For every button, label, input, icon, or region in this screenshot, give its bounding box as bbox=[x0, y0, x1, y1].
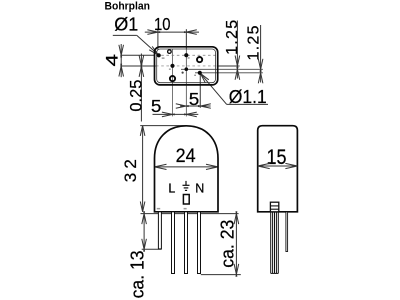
svg-text:L: L bbox=[168, 181, 175, 195]
hole L1 top-left bbox=[157, 53, 161, 57]
boss ring bottom-left bbox=[170, 76, 175, 81]
pin 4 bbox=[198, 212, 201, 274]
svg-text:5: 5 bbox=[189, 89, 200, 109]
dim 32 line bbox=[142, 126, 144, 212]
dim 10 arrow right bbox=[184, 30, 197, 35]
svg-text:Bohrplan: Bohrplan bbox=[105, 1, 151, 13]
svg-text:5: 5 bbox=[151, 96, 162, 116]
side pins bundle bbox=[271, 212, 279, 274]
top view case outline bbox=[155, 47, 218, 85]
ext pins bottom bbox=[201, 274, 241, 276]
dim 5 second line bbox=[180, 105, 211, 107]
dim 15 arrow right bbox=[285, 163, 297, 168]
ext short pin bottom bbox=[142, 248, 162, 250]
dim 4 arrow top bbox=[119, 45, 124, 58]
label O1 underline bbox=[113, 34, 137, 36]
dim 0.25 line bbox=[140, 54, 142, 122]
dim ca13 arrow bottom bbox=[142, 239, 147, 252]
dim 10 ext right / col 186.3 bbox=[185, 29, 187, 48]
svg-text:24: 24 bbox=[176, 145, 196, 167]
dim 5 second arrow left bbox=[176, 104, 189, 109]
dim 0.25 arrow upper bbox=[139, 55, 144, 68]
row line y66 left ext bbox=[120, 65, 156, 67]
dim ca23 arrow bottom bbox=[234, 264, 239, 277]
pin 2 bbox=[172, 212, 175, 274]
svg-text:Ø1.1: Ø1.1 bbox=[229, 87, 267, 107]
dim 10 ext left bbox=[157, 29, 159, 50]
dim 5 first arrow right bbox=[184, 112, 197, 117]
dim 5 second arrow right bbox=[198, 104, 211, 109]
dim 1.25 second arrow lower bbox=[258, 71, 263, 84]
dim 1.25 second line bbox=[260, 25, 262, 83]
ext body bottom bbox=[141, 213, 239, 215]
hole ring small top bbox=[168, 50, 172, 54]
row line y55 left ext bbox=[120, 54, 155, 56]
dim 24 arrow right bbox=[206, 164, 218, 169]
front view body bbox=[155, 126, 219, 212]
svg-text:Ø1: Ø1 bbox=[114, 14, 138, 34]
row y66 centerline bbox=[156, 65, 217, 67]
row y55 centerline bbox=[156, 54, 217, 56]
dim 1.25 first arrow lower bbox=[235, 67, 240, 80]
dim 4 arrow top tail bbox=[120, 44, 122, 55]
side pin tab line 2 bbox=[270, 208, 278, 210]
label O1.1 leader arrowhead bbox=[198, 71, 208, 83]
dim ca23 arrow top bbox=[234, 211, 239, 224]
centerline col 186.35 inside case bbox=[185, 49, 187, 117]
dim 5 first line bbox=[153, 113, 199, 115]
row y73 line bbox=[195, 72, 263, 74]
col 200.25 ext below bbox=[199, 75, 201, 108]
dim 4 arrow bottom bbox=[119, 64, 124, 77]
dim 15 arrow left bbox=[258, 163, 270, 168]
dim 15 line bbox=[258, 165, 298, 167]
label O1 leader bbox=[137, 35, 159, 54]
dim ca13 line bbox=[143, 214, 145, 252]
svg-text:1.25: 1.25 bbox=[245, 25, 262, 60]
dim ca13 arrow top bbox=[142, 211, 147, 224]
svg-text:ca. 23: ca. 23 bbox=[217, 220, 238, 268]
centerline col 172.45 bbox=[171, 49, 173, 116]
pin 1 short bbox=[158, 212, 161, 249]
dim 1.25 first line bbox=[236, 21, 238, 79]
dim 32 arrow top bbox=[140, 126, 145, 136]
svg-text:ca. 13: ca. 13 bbox=[126, 250, 147, 298]
tiny mark mold left bbox=[157, 208, 160, 210]
dim 5 first arrow left bbox=[162, 112, 175, 117]
boss ring right bbox=[197, 57, 202, 62]
dim 0.25 arrow lower bbox=[139, 64, 144, 77]
side view body bbox=[258, 126, 298, 212]
top view inner outline bbox=[157, 49, 216, 83]
hole N top-right bbox=[184, 53, 188, 57]
svg-text:4: 4 bbox=[102, 54, 121, 66]
tiny mark L row2 bbox=[169, 69, 171, 70]
ground symbol bbox=[183, 181, 190, 191]
label O1.1 underline bbox=[227, 103, 268, 105]
label O1 leader arrowhead bbox=[149, 46, 160, 57]
svg-text:0.25: 0.25 bbox=[127, 80, 145, 112]
dim 10 line bbox=[145, 31, 199, 33]
side pin tab line 1 bbox=[270, 205, 278, 207]
dim 10 arrow left bbox=[147, 30, 160, 35]
hole row2 mid bbox=[185, 67, 189, 71]
svg-text:1.25: 1.25 bbox=[224, 20, 241, 55]
side pin tab bbox=[270, 202, 278, 212]
svg-text:10: 10 bbox=[154, 14, 171, 34]
dim ca23 line bbox=[235, 214, 237, 275]
hole small gray bbox=[182, 72, 184, 74]
dim 4 arrow bottom tail bbox=[120, 66, 122, 77]
ext dome top bbox=[140, 125, 186, 127]
dim 24 arrow left bbox=[155, 164, 167, 169]
fuse window bbox=[183, 195, 189, 205]
row y69 line bbox=[181, 68, 263, 70]
hole center row2 bbox=[170, 64, 174, 68]
dim 1.25 first arrow upper bbox=[235, 56, 240, 69]
tiny mark N top bbox=[188, 57, 190, 59]
tiny mark N row2 bbox=[194, 75, 196, 76]
tiny mark L1 bbox=[162, 57, 165, 59]
dim 4 line bbox=[120, 55, 122, 66]
label O1.1 leader bbox=[200, 73, 226, 104]
pin 3 bbox=[185, 212, 188, 274]
tiny mark mold mid bbox=[184, 208, 187, 210]
dim 24 line bbox=[155, 166, 219, 168]
side short pin bbox=[286, 212, 288, 252]
dim 1.25 second arrow upper bbox=[258, 59, 263, 72]
svg-text:N: N bbox=[195, 181, 204, 195]
row line y66 right ext bbox=[217, 65, 240, 67]
hole row2 right O1.1 bbox=[198, 71, 202, 75]
dim 32 arrow bottom bbox=[140, 202, 145, 212]
